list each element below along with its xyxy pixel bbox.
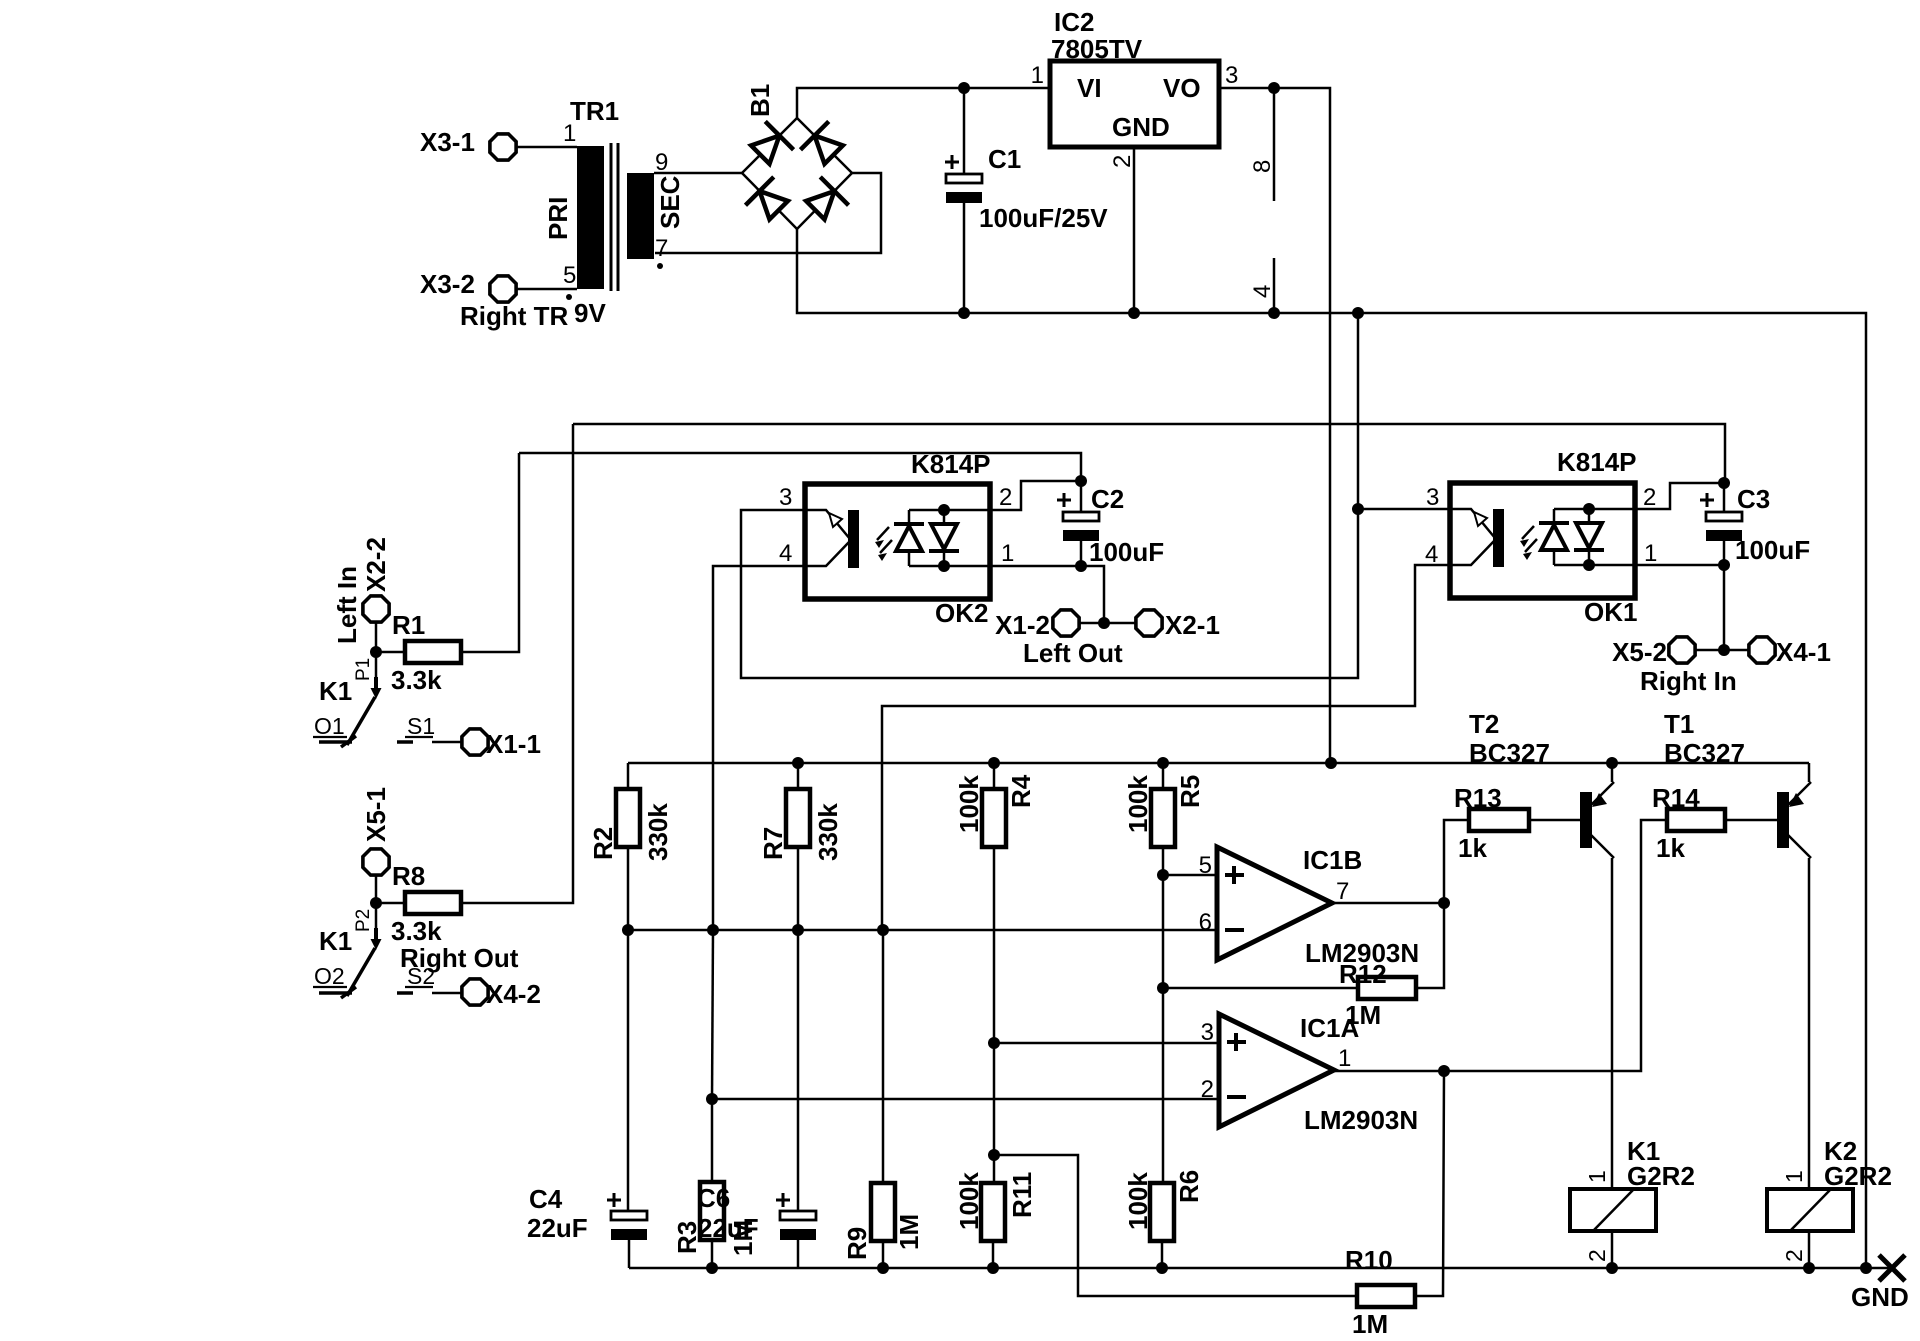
- svg-text:9V: 9V: [574, 298, 606, 328]
- wire to IC1B pin5: [1163, 874, 1217, 877]
- wire IC1A out to R14: [1444, 820, 1667, 1071]
- pad X2-2: [363, 596, 389, 622]
- svg-text:K814P: K814P: [1557, 447, 1637, 477]
- svg-text:3: 3: [1225, 62, 1238, 89]
- wire OK1 pin2 to C3: [1635, 483, 1724, 509]
- svg-text:100k: 100k: [1123, 775, 1153, 833]
- wire C3 bottom lead: [1723, 541, 1726, 565]
- relay coil K2 (G2R2): [1767, 1189, 1853, 1231]
- svg-text:5: 5: [563, 262, 576, 289]
- wire T2 collector to K1: [1611, 858, 1614, 1189]
- wire C3 top lead: [1723, 483, 1726, 512]
- wire IC2 GND to ground rail: [1133, 147, 1136, 313]
- svg-text:100uF: 100uF: [1089, 537, 1164, 567]
- wire R7 top lead: [797, 763, 800, 789]
- svg-text:100k: 100k: [954, 775, 984, 833]
- svg-text:X4-1: X4-1: [1776, 637, 1831, 667]
- wire T1 collector to K2: [1808, 858, 1811, 1189]
- junction R12 tap: [1157, 982, 1169, 994]
- wire pin 4 stub: [1273, 258, 1276, 313]
- wire R9 top lead: [882, 930, 885, 1183]
- junction C2 top: [1075, 475, 1087, 487]
- svg-text:100uF/25V: 100uF/25V: [979, 203, 1108, 233]
- junction P2: [370, 897, 382, 909]
- junction pin4 stub: [1268, 307, 1280, 319]
- resistor R6: [1150, 1183, 1174, 1241]
- op-amp IC1B (LM2903N): [1217, 847, 1332, 960]
- svg-text:3: 3: [1201, 1019, 1214, 1046]
- resistor R14: [1667, 809, 1725, 831]
- wire net R8-right to OK1 LED (wire A): [573, 424, 1725, 483]
- svg-text:K1: K1: [319, 926, 352, 956]
- resistor R1: [405, 641, 461, 663]
- wire C1 top lead: [963, 88, 966, 174]
- svg-text:2: 2: [1109, 155, 1136, 168]
- wire OK1 pin3 to ground net: [1358, 508, 1450, 511]
- svg-text:100k: 100k: [1123, 1172, 1153, 1230]
- svg-text:2: 2: [1584, 1249, 1610, 1262]
- wire C2 top lead: [1080, 481, 1083, 512]
- wire R2 bottom lead: [627, 847, 630, 930]
- svg-text:P1: P1: [353, 658, 374, 681]
- svg-text:X1-1: X1-1: [486, 729, 541, 759]
- resistor R9: [871, 1183, 895, 1241]
- wire TR1 pin9 to B1 AC1: [654, 172, 742, 175]
- wire R12 left lead: [1163, 987, 1358, 990]
- svg-text:G2R2: G2R2: [1627, 1161, 1695, 1191]
- diode B1 bottom-left: [745, 177, 792, 224]
- junction right rail to ground: [1860, 1262, 1872, 1274]
- svg-text:Right Out: Right Out: [400, 943, 519, 973]
- wire to IC1A pin2: [712, 1098, 1219, 1101]
- wire R13 left lead: [1444, 820, 1469, 903]
- wire R10 right lead: [1415, 1071, 1444, 1296]
- junction R7 top: [792, 757, 804, 769]
- svg-text:1M: 1M: [1352, 1309, 1388, 1339]
- svg-text:BC327: BC327: [1664, 738, 1745, 768]
- svg-text:IC2: IC2: [1054, 7, 1094, 37]
- svg-text:K814P: K814P: [911, 449, 991, 479]
- wire X5-1 to P2 node: [375, 876, 378, 903]
- svg-text:X3-1: X3-1: [420, 127, 475, 157]
- capacitor C3: [1706, 512, 1742, 541]
- junction OK1 pin3 tap: [1352, 503, 1364, 515]
- plus C2: [1057, 493, 1071, 507]
- svg-text:2: 2: [1643, 484, 1656, 511]
- pad X3-1: [490, 134, 516, 160]
- wire K1 pin2 to ground: [1611, 1231, 1614, 1268]
- junction IC2 GND: [1128, 307, 1140, 319]
- svg-text:R5: R5: [1175, 775, 1205, 808]
- relay coil K1 (G2R2): [1570, 1189, 1656, 1231]
- optocoupler OK1 (K814P): [1450, 483, 1635, 598]
- pad X2-1: [1136, 610, 1162, 636]
- junction C1 bottom: [958, 307, 970, 319]
- wire R7 bottom lead: [797, 847, 800, 930]
- wire OK1 pin1 to Right In: [1635, 565, 1724, 650]
- svg-text:X2-2: X2-2: [361, 537, 391, 592]
- junction R9 bottom: [877, 1262, 889, 1274]
- resistor R3: [700, 1182, 724, 1240]
- wire net R1-right to OK2 LED (wire B): [519, 453, 1081, 481]
- junction IC1A pin3: [988, 1037, 1000, 1049]
- svg-text:R6: R6: [1174, 1170, 1204, 1203]
- junction R4 top: [988, 757, 1000, 769]
- svg-text:6: 6: [1199, 909, 1212, 936]
- wire down to R6: [1162, 988, 1165, 1183]
- svg-text:R2: R2: [588, 827, 618, 860]
- wire R3 bottom lead: [711, 1240, 714, 1268]
- resistor R5: [1151, 789, 1175, 847]
- junction C3 top: [1718, 477, 1730, 489]
- polarity dot TR1 primary: [566, 294, 572, 300]
- svg-text:7: 7: [655, 235, 668, 262]
- resistor R4: [982, 789, 1006, 847]
- bridge rectifier B1: [742, 118, 852, 229]
- wire bottom ground rail: [629, 1267, 1892, 1270]
- svg-text:1: 1: [1584, 1170, 1610, 1183]
- wire R8 left lead: [376, 902, 405, 905]
- svg-text:O1: O1: [314, 713, 345, 739]
- wire R11 bottom lead: [992, 1241, 995, 1268]
- svg-text:Left Out: Left Out: [1023, 638, 1123, 668]
- wire IC2 VO 5V down to supply rail: [1219, 88, 1330, 763]
- wire R13 to T2 base: [1529, 819, 1580, 822]
- svg-text:22uF: 22uF: [698, 1213, 759, 1243]
- junction K2 pin2: [1803, 1262, 1815, 1274]
- svg-text:R13: R13: [1454, 783, 1502, 813]
- wire R5 top lead: [1162, 763, 1165, 789]
- svg-text:5: 5: [1199, 852, 1212, 879]
- wire R5 bottom lead: [1162, 847, 1165, 875]
- resistor R10: [1357, 1285, 1415, 1307]
- wire R3 top lead: [711, 1099, 714, 1182]
- wire K2 pin2 to ground: [1808, 1231, 1811, 1268]
- svg-text:330k: 330k: [643, 803, 673, 861]
- wire R14 to T1 base: [1725, 819, 1777, 822]
- node OK2 diode top: [938, 504, 950, 516]
- wire R4-R11 node: [993, 1043, 996, 1155]
- junction Right In: [1718, 644, 1730, 656]
- wire OK1 pin4 to minus rail: [882, 565, 1450, 931]
- node OK1 diode bottom: [1583, 559, 1595, 571]
- junction C2 bottom: [1075, 560, 1087, 572]
- plus C3: [1700, 493, 1714, 507]
- svg-text:Right In: Right In: [1640, 666, 1737, 696]
- svg-text:R10: R10: [1345, 1245, 1393, 1275]
- svg-text:C3: C3: [1737, 484, 1770, 514]
- junction IC1A pin2 net: [706, 1093, 718, 1105]
- op-amp IC1A (LM2903N): [1219, 1014, 1334, 1127]
- svg-text:IC1B: IC1B: [1303, 845, 1362, 875]
- wire IC1A output: [1333, 1070, 1444, 1073]
- svg-text:GND: GND: [1112, 112, 1170, 142]
- svg-text:X4-2: X4-2: [486, 979, 541, 1009]
- capacitor C5: [780, 1211, 816, 1240]
- wire OK2 pin4 to minus rail: [713, 566, 805, 931]
- capacitor C1: [946, 174, 982, 203]
- svg-text:R12: R12: [1339, 959, 1387, 989]
- wire R4 top lead: [993, 763, 996, 789]
- relay contact O2/S2: [376, 903, 461, 993]
- svg-text:S1: S1: [407, 713, 435, 739]
- capacitor C2: [1063, 512, 1099, 541]
- svg-text:R7: R7: [758, 827, 788, 860]
- svg-text:1: 1: [563, 120, 576, 147]
- pad X3-2: [490, 276, 516, 302]
- wire R1 right lead up: [461, 453, 519, 652]
- svg-text:2: 2: [999, 484, 1012, 511]
- svg-text:TR1: TR1: [570, 96, 619, 126]
- pad X1-2: [1053, 610, 1079, 636]
- wire B1 plus to IC2 VI: [797, 88, 1050, 118]
- svg-text:8: 8: [1249, 160, 1276, 173]
- svg-text:K1: K1: [319, 676, 352, 706]
- svg-text:LM2903N: LM2903N: [1304, 1105, 1418, 1135]
- wire C2 bottom lead: [1080, 541, 1083, 566]
- svg-text:1M: 1M: [894, 1214, 924, 1250]
- pad X4-1: [1749, 637, 1775, 663]
- svg-text:4: 4: [1249, 285, 1276, 298]
- svg-text:R1: R1: [392, 610, 425, 640]
- wire B1 AC2 to TR1 pin7: [655, 173, 881, 253]
- wire OK2 pin4 net down: [712, 930, 713, 1099]
- svg-text:C1: C1: [988, 144, 1021, 174]
- polarity dot TR1 secondary: [657, 263, 663, 269]
- svg-text:G2R2: G2R2: [1824, 1161, 1892, 1191]
- resistor R2: [616, 789, 640, 847]
- svg-text:100k: 100k: [954, 1172, 984, 1230]
- svg-text:X5-1: X5-1: [361, 787, 391, 842]
- junction P1: [370, 646, 382, 658]
- svg-text:C4: C4: [529, 1184, 563, 1214]
- svg-text:T1: T1: [1664, 709, 1694, 739]
- diode B1 bottom-right: [801, 177, 848, 224]
- svg-text:1: 1: [1338, 1045, 1351, 1072]
- junction IC1B out: [1438, 897, 1450, 909]
- svg-text:7: 7: [1336, 878, 1349, 905]
- relay contact O1/S1: [376, 652, 461, 742]
- wire OK2 pin3 to ground rail: [741, 313, 1358, 678]
- junction C3 bottom: [1718, 559, 1730, 571]
- svg-text:OK2: OK2: [935, 598, 988, 628]
- svg-text:VI: VI: [1077, 73, 1102, 103]
- svg-text:4: 4: [779, 540, 792, 567]
- resistor R12: [1358, 977, 1416, 999]
- junction IC1A out: [1438, 1065, 1450, 1077]
- svg-text:3: 3: [779, 484, 792, 511]
- svg-text:R4: R4: [1006, 774, 1036, 808]
- svg-text:2: 2: [1781, 1249, 1807, 1262]
- svg-text:C2: C2: [1091, 484, 1124, 514]
- capacitor C4: [611, 1211, 647, 1240]
- junction OK2 pin4: [707, 924, 719, 936]
- junction VO / pin8 stub: [1268, 82, 1280, 94]
- svg-text:3.3k: 3.3k: [391, 916, 442, 946]
- svg-text:R11: R11: [1007, 1172, 1037, 1218]
- wire R2 top lead: [627, 763, 630, 789]
- svg-text:P2: P2: [353, 909, 374, 932]
- wire R4 bottom lead: [993, 847, 996, 1043]
- wire ground rail top: [797, 229, 1866, 1268]
- junction opto collector net: [1352, 307, 1364, 319]
- svg-text:100uF: 100uF: [1735, 535, 1810, 565]
- svg-text:IC1A: IC1A: [1300, 1013, 1359, 1043]
- wire X3-2 to TR1 pin5: [517, 288, 577, 291]
- pad X5-1: [363, 849, 389, 875]
- svg-text:1: 1: [1781, 1170, 1807, 1183]
- svg-text:R8: R8: [392, 861, 425, 891]
- resistor R7: [786, 789, 810, 847]
- wire minus input rail to IC1B pin6: [628, 929, 1217, 932]
- wire R12 right lead: [1417, 903, 1444, 988]
- diode B1 top-right: [800, 121, 847, 168]
- diode B1 top-left: [746, 121, 793, 168]
- transistor T1 (BC327 PNP): [1777, 792, 1789, 848]
- wire OK2 pin1 to Left Out: [990, 566, 1104, 623]
- wire IC1B output: [1332, 902, 1444, 905]
- wire C5 top lead: [797, 930, 800, 1211]
- svg-text:X5-2: X5-2: [1612, 637, 1667, 667]
- transistor T2 (BC327 PNP): [1580, 792, 1592, 848]
- junction R7 bottom: [792, 924, 804, 936]
- voltage regulator IC2 7805TV: [1050, 61, 1219, 147]
- junction R6 bottom: [1156, 1262, 1168, 1274]
- wire X5-2 to X4-1: [1696, 649, 1748, 652]
- svg-text:Right TR: Right TR: [460, 301, 569, 331]
- wire T2 emitter: [1611, 763, 1614, 782]
- junction VO feed: [1325, 757, 1337, 769]
- wire R6 bottom lead: [1161, 1241, 1164, 1268]
- junction R11 bottom: [987, 1262, 999, 1274]
- junction R2 bottom: [622, 924, 634, 936]
- junction R3 bottom: [706, 1262, 718, 1274]
- svg-text:Left In: Left In: [332, 566, 362, 644]
- svg-text:3: 3: [1426, 484, 1439, 511]
- svg-text:1: 1: [1644, 540, 1657, 567]
- junction T2 emitter: [1606, 757, 1618, 769]
- svg-text:T2: T2: [1469, 709, 1499, 739]
- junction R5 top: [1157, 757, 1169, 769]
- svg-text:BC327: BC327: [1469, 738, 1550, 768]
- wire R10 left net: [994, 1155, 1357, 1296]
- resistor R8: [405, 892, 461, 914]
- wire C5 bottom lead: [797, 1240, 800, 1268]
- svg-text:R14: R14: [1652, 783, 1700, 813]
- optocoupler OK2 (K814P): [805, 484, 990, 599]
- pad X1-1: [462, 729, 488, 755]
- wire R9 bottom lead: [882, 1241, 885, 1268]
- svg-text:X2-1: X2-1: [1165, 610, 1220, 640]
- svg-text:OK1: OK1: [1584, 597, 1637, 627]
- plus C4: [607, 1193, 621, 1207]
- junction OK1 pin4 net: [877, 924, 889, 936]
- wire R5-R6 node: [1162, 875, 1165, 988]
- svg-text:X1-2: X1-2: [995, 610, 1050, 640]
- wire R1 left lead: [376, 651, 405, 654]
- svg-text:1k: 1k: [1458, 833, 1487, 863]
- wire R8 right lead up (wire A): [461, 424, 573, 903]
- wire X1-2 to X2-1: [1080, 622, 1135, 625]
- transformer TR1: [577, 143, 654, 291]
- wire C1 bottom lead: [963, 203, 966, 313]
- plus C1: [945, 155, 959, 169]
- svg-text:330k: 330k: [813, 803, 843, 861]
- wire C4 bottom lead: [628, 1240, 631, 1268]
- wire +5V supply rail: [628, 762, 1809, 765]
- junction K1 pin2: [1606, 1262, 1618, 1274]
- wire to IC1A pin3: [994, 1042, 1219, 1045]
- resistor R13: [1469, 809, 1529, 831]
- svg-text:PRI: PRI: [543, 197, 573, 240]
- svg-text:GND: GND: [1851, 1282, 1909, 1312]
- node OK2 diode bottom: [938, 560, 950, 572]
- svg-text:VO: VO: [1163, 73, 1201, 103]
- junction Left Out: [1098, 617, 1110, 629]
- svg-text:7805TV: 7805TV: [1051, 34, 1143, 64]
- wire X2-2 to P1 node: [375, 623, 378, 652]
- pad X5-2: [1669, 637, 1695, 663]
- wire pin 8 stub: [1273, 88, 1276, 201]
- pad X4-2: [462, 979, 488, 1005]
- svg-text:1k: 1k: [1656, 833, 1685, 863]
- svg-text:22uF: 22uF: [527, 1213, 588, 1243]
- plus C5: [776, 1193, 790, 1207]
- svg-text:SEC: SEC: [655, 175, 685, 229]
- svg-text:3.3k: 3.3k: [391, 665, 442, 695]
- wire X3-1 to TR1 pin1: [517, 146, 577, 149]
- node OK1 diode top: [1583, 503, 1595, 515]
- wire R11 top lead: [993, 1155, 996, 1183]
- svg-text:R9: R9: [842, 1227, 872, 1260]
- svg-text:O2: O2: [314, 963, 345, 989]
- junction IC1B pin5: [1157, 869, 1169, 881]
- wire OK2 pin2 to C2: [990, 481, 1081, 510]
- ground symbol GND: [1879, 1255, 1905, 1281]
- wire T1 emitter: [1808, 763, 1811, 782]
- svg-text:B1: B1: [745, 84, 775, 117]
- svg-text:X3-2: X3-2: [420, 269, 475, 299]
- resistor R11: [981, 1183, 1005, 1241]
- wire C4 top lead: [627, 930, 630, 1211]
- junction R10 tap: [988, 1149, 1000, 1161]
- svg-text:1: 1: [1001, 540, 1014, 567]
- junction C1 top: [958, 82, 970, 94]
- svg-text:C6: C6: [697, 1183, 730, 1213]
- svg-text:1: 1: [1031, 62, 1044, 89]
